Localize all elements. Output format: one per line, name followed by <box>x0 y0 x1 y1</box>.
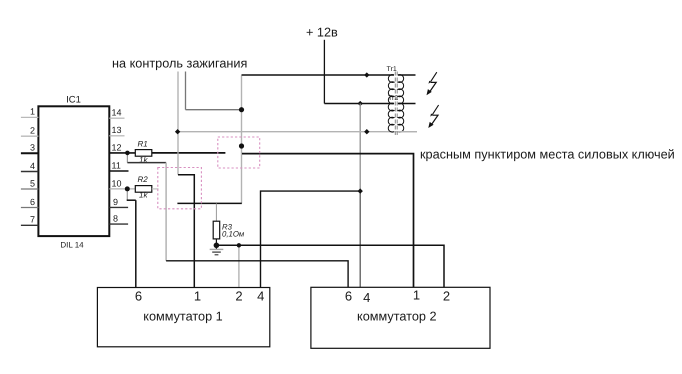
node coil top tap <box>239 107 244 112</box>
svg-text:1: 1 <box>413 288 420 303</box>
svg-text:R2: R2 <box>138 175 149 184</box>
svg-text:4: 4 <box>257 288 264 303</box>
IC1 body <box>38 106 109 236</box>
transformer Tr1 right winding <box>398 75 404 104</box>
spark arrow 1 <box>427 72 437 95</box>
wire line B horizontal <box>186 109 242 111</box>
wire top terminal horizontal <box>242 74 395 76</box>
svg-text:DIL 14: DIL 14 <box>60 241 84 250</box>
pin 7 <box>21 215 39 226</box>
power switch dashed box 2 <box>158 168 202 209</box>
svg-text:6: 6 <box>345 288 352 303</box>
wire pin10 branch horizontal <box>127 199 136 201</box>
svg-text:11: 11 <box>112 161 121 171</box>
wire kommutator1 pin4 up <box>261 191 361 287</box>
svg-text:6: 6 <box>30 197 35 207</box>
wire secondary middle lead <box>398 103 416 105</box>
wire pin12 branch horizontal <box>127 162 166 164</box>
wire ignition control line B <box>185 72 187 110</box>
svg-text:красным пунктиром места силовы: красным пунктиром места силовых ключей <box>420 148 675 162</box>
svg-text:10: 10 <box>112 178 122 188</box>
svg-text:5: 5 <box>30 178 35 188</box>
wire switch output to kommutator2 pin1 <box>242 154 414 288</box>
transformer core <box>395 72 397 136</box>
pin 13 <box>109 125 124 136</box>
wire R2 output stub <box>152 188 159 190</box>
kommutator 2 box <box>311 287 490 348</box>
node bottom left <box>175 129 180 134</box>
svg-text:9: 9 <box>113 197 118 207</box>
pin 2 <box>21 126 39 137</box>
pin 1 <box>21 107 39 118</box>
wire coil primary vertical <box>241 76 243 204</box>
svg-text:2: 2 <box>30 126 35 136</box>
svg-text:R1: R1 <box>138 139 148 148</box>
pin 12 <box>109 142 135 153</box>
node top terminal <box>364 72 369 77</box>
svg-text:12: 12 <box>112 142 122 152</box>
svg-text:2: 2 <box>443 289 450 304</box>
wire secondary bottom lead <box>398 131 417 133</box>
transformer Tr2 left winding <box>388 103 394 132</box>
node switch junction <box>239 143 244 148</box>
spark arrow 2 <box>428 105 438 128</box>
svg-text:14: 14 <box>112 108 122 118</box>
wire middle tap down to kommutator2 pin4 <box>359 191 361 287</box>
transformer Tr1 left winding <box>388 75 394 104</box>
pin 6 <box>21 197 39 208</box>
node pin4 net junction <box>358 188 363 193</box>
svg-text:1: 1 <box>194 288 201 303</box>
pin 5 <box>21 178 39 189</box>
wire pin12 drop <box>126 153 128 163</box>
power switch dashed box 1 <box>218 137 260 168</box>
transformer Tr2 right winding <box>398 103 404 132</box>
node pin10 junction <box>125 186 130 191</box>
pin 8 <box>109 214 128 225</box>
pin 11 <box>109 161 128 172</box>
svg-text:0,1Ом: 0,1Ом <box>222 229 245 238</box>
pin 10 <box>109 178 135 189</box>
wire R3 bottom <box>215 239 217 245</box>
wire +12v to coil middle <box>324 103 394 105</box>
svg-text:1k: 1k <box>139 190 148 199</box>
wire gray vertical to kommutator2 pin6 <box>165 163 167 261</box>
resistor R1 <box>135 139 152 164</box>
svg-text:4: 4 <box>30 161 35 171</box>
svg-text:6: 6 <box>135 288 142 303</box>
svg-text:4: 4 <box>363 290 370 305</box>
kommutator 1 box <box>97 288 269 347</box>
resistor R3 <box>213 221 245 239</box>
wire R1 output <box>152 152 226 154</box>
pin 4 <box>21 161 39 172</box>
svg-text:1: 1 <box>30 107 35 117</box>
wire R3 top drop <box>215 203 217 221</box>
pin 9 <box>109 197 128 208</box>
node R3 ground junction <box>214 243 220 249</box>
svg-text:на контроль зажигания: на контроль зажигания <box>112 57 247 71</box>
wire +12v vertical <box>323 40 325 104</box>
svg-text:2: 2 <box>235 288 242 303</box>
wire secondary top lead <box>398 74 416 76</box>
node gray drop junction <box>237 243 241 247</box>
svg-text:8: 8 <box>113 214 118 224</box>
wire switch2 output <box>177 202 241 204</box>
svg-text:IC1: IC1 <box>66 95 81 106</box>
wire middle tap down gray <box>359 104 361 192</box>
pin 14 <box>109 108 124 119</box>
wire gray drop to kommutator1 pin2 <box>238 245 240 287</box>
wire ground rail to kommutator2 pin2 <box>216 245 444 287</box>
resistor R2 <box>135 175 152 199</box>
svg-text:коммутатор 1: коммутатор 1 <box>143 310 223 324</box>
wire pin10 drop <box>126 189 128 200</box>
node bottom terminal <box>364 129 369 134</box>
wire corner to kommutator1 pin1 <box>178 175 194 288</box>
wire to kommutator1 pin6 <box>135 200 137 287</box>
svg-text:13: 13 <box>112 125 122 135</box>
wire to kommutator2 pin6 <box>166 261 348 288</box>
svg-text:коммутатор 2: коммутатор 2 <box>357 310 437 324</box>
pin 3 <box>21 143 39 154</box>
node middle terminal <box>358 101 363 106</box>
wire ignition control line A <box>177 72 179 175</box>
svg-text:+ 12в: + 12в <box>306 26 338 40</box>
node pin12 junction <box>125 151 130 156</box>
svg-text:3: 3 <box>30 143 35 153</box>
wire bottom terminal gray <box>178 131 417 133</box>
svg-text:7: 7 <box>30 215 35 225</box>
ground <box>210 245 224 255</box>
